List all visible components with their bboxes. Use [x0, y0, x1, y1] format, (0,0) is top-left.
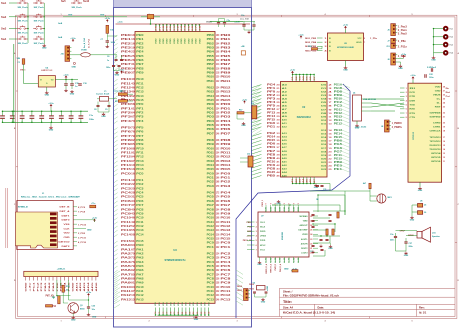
svg-text:Sw3: Sw3 [1, 27, 7, 31]
svg-text:144: 144 [216, 294, 220, 297]
SD gnd [77, 228, 86, 230]
svg-text:U3: U3 [173, 248, 177, 252]
svg-text:PB6: PB6 [334, 140, 343, 143]
svg-text:PF1: PF1 [136, 107, 144, 110]
svg-text:PC1: PC1 [136, 179, 144, 182]
LEDs HL1-HL4 [443, 26, 448, 31]
svg-text:PG3: PG3 [221, 184, 232, 188]
svg-text:GND: GND [49, 130, 54, 132]
svg-text:DVDD: DVDD [260, 231, 266, 233]
svg-text:PB14: PB14 [221, 94, 232, 98]
svg-text:PC8: PC8 [221, 276, 232, 280]
C30 gnd [87, 313, 90, 316]
C30 cap [87, 307, 90, 308]
svg-text:PD10: PD10 [207, 147, 215, 150]
svg-text:GND: GND [284, 269, 289, 271]
SDRAM U2 body [281, 82, 328, 178]
svg-text:PE9: PE9 [136, 71, 144, 74]
svg-text:PE5: PE5 [121, 54, 132, 58]
svg-text:GND: GND [314, 187, 319, 189]
svg-text:SUSPEND: SUSPEND [430, 117, 442, 119]
svg-text:PG10: PG10 [207, 217, 215, 220]
resistor R11 [62, 285, 64, 292]
svg-text:PB4: PB4 [221, 50, 232, 54]
svg-text:+3.3v: +3.3v [410, 75, 416, 77]
svg-text:8_PC9: 8_PC9 [78, 207, 86, 209]
svg-text:PC15: PC15 [121, 239, 132, 243]
svg-text:PD12: PD12 [221, 155, 232, 159]
svg-text:DAT3/CD: DAT3/CD [59, 240, 71, 243]
svg-text:PF6: PF6 [136, 131, 144, 134]
svg-text:GND: GND [26, 282, 28, 292]
svg-text:VIN: VIN [17, 58, 21, 60]
svg-text:PD9: PD9 [207, 143, 215, 146]
VIN fuse F1 [22, 59, 25, 65]
svg-text:+3.3v: +3.3v [48, 103, 54, 105]
svg-text:PB8: PB8 [207, 67, 215, 70]
resistor R20 on rail [147, 14, 154, 18]
svg-text:CHR0: CHR0 [433, 123, 442, 125]
svg-text:PE8: PE8 [136, 67, 144, 70]
svg-text:PA7: PA7 [121, 272, 132, 276]
svg-text:122: 122 [216, 246, 220, 249]
svg-text:VDD: VDD [181, 38, 183, 44]
svg-text:PB4_R_A: PB4_R_A [279, 263, 282, 272]
oval resistor VUSB [81, 53, 91, 57]
svg-text:9: 9 [270, 203, 272, 204]
svg-text:VSS: VSS [64, 224, 71, 226]
svg-text:PE6: PE6 [136, 59, 144, 62]
codec top gnd [272, 204, 278, 206]
svg-text:PF5: PF5 [136, 127, 144, 130]
svg-text:PG15: PG15 [221, 236, 232, 240]
svg-text:PF13: PF13 [136, 160, 144, 163]
svg-text:1_P5x: 1_P5x [370, 38, 378, 40]
crystal gnd [97, 107, 99, 112]
svg-text:PF6: PF6 [121, 130, 132, 134]
LED common wire [433, 29, 435, 56]
svg-text:2_P11x: 2_P11x [398, 45, 408, 48]
svg-text:PB13: PB13 [221, 90, 232, 94]
crystal Y1 [100, 97, 109, 102]
svg-text:VDD: VDD [159, 38, 161, 44]
svg-text:PA12: PA12 [136, 294, 144, 297]
svg-text:DAT1: DAT1 [62, 214, 71, 217]
svg-text:GND: GND [276, 203, 281, 205]
svg-text:PF0: PF0 [121, 102, 132, 106]
svg-text:PD8: PD8 [221, 138, 232, 142]
svg-text:VDDA: VDDA [206, 20, 212, 23]
svg-text:PF11: PF11 [121, 151, 132, 155]
svg-text:PE0: PE0 [334, 165, 343, 168]
svg-text:ES8388: ES8388 [282, 231, 284, 240]
svg-text:PC1: PC1 [221, 245, 232, 249]
svg-text:GND: GND [70, 93, 75, 95]
svg-text:+3.3v: +3.3v [70, 38, 76, 40]
header wires down [56, 280, 58, 296]
svg-text:STM32F4Z6ZGTx: STM32F4Z6ZGTx [164, 258, 186, 262]
SD +3.3v [94, 219, 96, 222]
title block [280, 288, 456, 316]
svg-text:PG12: PG12 [221, 224, 232, 228]
J6 +3.3v [403, 55, 405, 58]
svg-text:4_PC10: 4_PC10 [78, 241, 87, 244]
svg-text:PB0: PB0 [221, 33, 232, 37]
svg-text:PF5: PF5 [121, 126, 132, 130]
svg-text:IS42S16400J: IS42S16400J [297, 116, 312, 119]
svg-text:PA2: PA2 [121, 251, 132, 255]
svg-text:PG4: PG4 [207, 192, 215, 195]
svg-text:PF7: PF7 [121, 134, 132, 138]
svg-text:PC10: PC10 [207, 286, 215, 289]
flash R19 pullup [312, 48, 318, 50]
bus net (right section) [236, 84, 350, 318]
svg-text:+2B: +2B [241, 46, 245, 48]
svg-text:PD1: PD1 [207, 107, 215, 110]
svg-text:PE4: PE4 [136, 51, 144, 54]
svg-text:PC11: PC11 [207, 290, 215, 293]
svg-text:RXLED/GPIO1: RXLED/GPIO1 [430, 145, 442, 147]
svg-text:PB13: PB13 [207, 91, 215, 94]
group outline (MCU section) [114, 0, 252, 327]
svg-text:PC0: PC0 [221, 241, 232, 245]
svg-text:J12: J12 [247, 154, 250, 156]
svg-text:GND: GND [42, 48, 47, 50]
svg-text:PC7: PC7 [221, 272, 232, 276]
svg-text:PD4: PD4 [221, 119, 232, 123]
svg-text:PE6: PE6 [121, 58, 132, 62]
svg-text:PE2: PE2 [121, 41, 132, 45]
svg-text:PC9: PC9 [221, 281, 232, 285]
svg-text:PC9: PC9 [207, 282, 215, 285]
svg-text:PE10: PE10 [121, 77, 132, 81]
svg-text:156: 156 [216, 156, 220, 159]
svg-text:PD14: PD14 [207, 164, 215, 167]
svg-text:C8: C8 [94, 109, 96, 111]
svg-text:+3.3v: +3.3v [234, 22, 240, 24]
C15 cap [64, 84, 68, 85]
codec U7 bottom pins [265, 257, 267, 263]
svg-text:J11: J11 [251, 103, 254, 105]
svg-text:GND: GND [343, 70, 348, 72]
svg-text:2_PWR5v: 2_PWR5v [392, 126, 403, 129]
svg-text:PE13: PE13 [136, 91, 144, 94]
connector J12 [248, 156, 253, 167]
svg-text:138: 138 [216, 116, 220, 119]
svg-text:102: 102 [216, 38, 220, 41]
svg-text:PC8: PC8 [136, 208, 144, 211]
svg-text:9: 9 [298, 203, 300, 204]
svg-text:PWT_AD: PWT_AD [46, 295, 54, 298]
svg-text:100n: 100n [89, 119, 95, 121]
svg-text:112: 112 [216, 225, 220, 228]
svg-text:PC9: PC9 [121, 211, 132, 215]
svg-text:VDD: VDD [156, 38, 158, 44]
svg-text:VDD: VDD [64, 233, 71, 235]
flash GND below [345, 61, 347, 67]
svg-text:PF4: PF4 [136, 120, 144, 123]
svg-text:GND: GND [328, 248, 333, 250]
svg-text:PE11: PE11 [121, 81, 132, 85]
svg-text:158: 158 [216, 160, 220, 163]
codec bottom gnd [259, 257, 261, 261]
svg-text:PE14: PE14 [334, 133, 343, 136]
svg-text:PE0: PE0 [136, 34, 144, 37]
svg-text:GnB: GnB [58, 23, 63, 25]
svg-text:RST: RST [435, 106, 442, 108]
svg-text:PE0: PE0 [121, 33, 132, 37]
svg-text:PB3: PB3 [207, 46, 215, 49]
svg-text:VDD: VDD [174, 38, 176, 44]
svg-text:SUSPENDB: SUSPENDB [430, 113, 441, 115]
svg-text:PD12: PD12 [334, 112, 343, 115]
svg-text:PG1A: PG1A [334, 83, 343, 86]
svg-text:PC11: PC11 [121, 220, 132, 224]
connector J5 [391, 24, 396, 36]
svg-text:PF14: PF14 [121, 163, 132, 167]
svg-text:114: 114 [216, 229, 220, 232]
svg-text:PC6: PC6 [221, 268, 232, 272]
svg-text:PA13: PA13 [136, 298, 144, 301]
codec U7 body [258, 212, 309, 257]
svg-text:PE7: PE7 [121, 62, 132, 66]
svg-text:PC7: PC7 [136, 204, 144, 207]
+3.3V rail wire [116, 23, 251, 25]
svg-text:PB2: PB2 [207, 42, 215, 45]
svg-text:PG6: PG6 [334, 147, 343, 150]
svg-text:PE15: PE15 [136, 99, 144, 102]
svg-text:AD5: AD5 [91, 281, 94, 292]
VCAP caps C6 C7 [114, 59, 117, 60]
bus entries to header section [114, 271, 121, 275]
svg-text:+3.3v: +3.3v [401, 54, 407, 56]
svg-text:GND: GND [92, 317, 97, 319]
svg-text:PC4: PC4 [221, 260, 232, 264]
svg-text:3_Pac5: 3_Pac5 [398, 33, 408, 36]
svg-text:120: 120 [216, 76, 220, 79]
svg-text:140: 140 [216, 286, 220, 289]
USB shield gnd [356, 121, 358, 124]
mic bias res [369, 183, 371, 189]
svg-text:PA11: PA11 [121, 289, 132, 293]
svg-text:132: 132 [216, 269, 220, 272]
svg-text:Rev:: Rev: [419, 305, 425, 309]
svg-text:DTR: DTR [410, 96, 416, 98]
connector J14 [244, 289, 249, 301]
svg-text:PC2: PC2 [121, 182, 132, 186]
svg-text:PD5: PD5 [207, 124, 215, 127]
svg-text:PG1: PG1 [221, 176, 232, 180]
svg-text:LPSD0: LPSD0 [260, 236, 266, 238]
svg-text:AT25SF081-SSHD: AT25SF081-SSHD [337, 46, 354, 49]
svg-text:SW_Push: SW_Push [71, 7, 82, 9]
svg-text:+3.3v: +3.3v [290, 70, 296, 72]
svg-text:PC5: PC5 [221, 264, 232, 268]
C32 wires [243, 21, 245, 25]
J10 pad [73, 62, 75, 64]
svg-text:136: 136 [216, 277, 220, 280]
svg-text:PA6: PA6 [136, 269, 144, 272]
svg-text:PF10: PF10 [136, 147, 144, 150]
svg-text:PB12: PB12 [207, 86, 215, 89]
svg-text:C9: C9 [105, 109, 107, 111]
svg-text:AD3: AD3 [83, 281, 86, 292]
svg-text:PG1B: PG1B [334, 87, 343, 90]
svg-text:PB10: PB10 [221, 75, 232, 79]
svg-text:PG11: PG11 [207, 221, 215, 224]
svg-text:CHR1: CHR1 [433, 127, 442, 129]
microphone MK1 [377, 194, 386, 203]
svg-text:PF15: PF15 [121, 167, 132, 171]
svg-text:PG2: PG2 [207, 181, 215, 184]
svg-text:PF10: PF10 [121, 146, 132, 150]
NRST resistor R2 [106, 25, 109, 33]
svg-text:GND: GND [261, 301, 266, 303]
svg-text:USB-MICROB: USB-MICROB [363, 99, 377, 101]
svg-text:Conn_01x02: Conn_01x02 [355, 127, 366, 129]
svg-text:PWR_R_A: PWR_R_A [270, 263, 273, 272]
Q1 wires [62, 292, 64, 295]
svg-text:PWR_R: PWR_R [275, 263, 277, 270]
svg-text:AOUTR: AOUTR [301, 242, 308, 245]
svg-text:1_PWR3V: 1_PWR3V [392, 122, 402, 125]
svg-text:PB0: PB0 [207, 34, 215, 37]
svg-text:122: 122 [216, 80, 220, 83]
svg-text:PC7: PC7 [121, 203, 132, 207]
group outline top band [114, 0, 252, 8]
svg-text:PC0: PC0 [207, 242, 215, 245]
svg-text:GND: GND [71, 319, 76, 321]
svg-text:PC3: PC3 [121, 186, 132, 190]
svg-text:PG0: PG0 [207, 172, 215, 175]
svg-text:PG8: PG8 [221, 207, 232, 211]
U1 +3.3v above [412, 77, 414, 80]
svg-text:104: 104 [216, 208, 220, 211]
svg-text:150: 150 [216, 143, 220, 146]
U1 gnd below [419, 182, 421, 186]
svg-text:PF11: PF11 [334, 154, 343, 157]
svg-text:9: 9 [293, 203, 295, 204]
svg-text:PC5: PC5 [121, 195, 132, 199]
svg-text:PG1: PG1 [267, 126, 276, 129]
svg-text:VDD: VDD [196, 38, 198, 44]
svg-text:100n: 100n [429, 77, 434, 79]
svg-text:PB9: PB9 [207, 71, 215, 74]
svg-text:162: 162 [216, 168, 220, 171]
svg-text:MICBIAS: MICBIAS [300, 215, 309, 218]
svg-text:PF2: PF2 [136, 112, 144, 115]
svg-text:PC1: PC1 [207, 246, 215, 249]
svg-text:1_Pac3: 1_Pac3 [398, 25, 408, 28]
svg-text:PD0: PD0 [207, 103, 215, 106]
svg-text:PG7: PG7 [334, 150, 343, 153]
svg-text:PB5: PB5 [207, 55, 215, 58]
svg-text:CLLX: CLLX [260, 222, 266, 224]
svg-text:140: 140 [216, 120, 220, 123]
switches SW1-SW9 grid [17, 2, 20, 4]
svg-text:VDD: VDD [192, 38, 194, 44]
svg-text:146: 146 [216, 298, 220, 301]
svg-text:Date:: Date: [318, 305, 325, 309]
svg-text:PD3: PD3 [207, 116, 215, 119]
headphone jack J6 [418, 204, 423, 208]
audio gnd2 [329, 245, 332, 248]
svg-text:2_Pacx: 2_Pacx [398, 29, 408, 32]
svg-text:GND: GND [115, 74, 120, 76]
svg-text:102: 102 [216, 204, 220, 207]
svg-text:124: 124 [216, 252, 220, 255]
svg-text:4k7: 4k7 [363, 182, 366, 185]
svg-text:PE4: PE4 [121, 50, 132, 54]
svg-text:PA10: PA10 [136, 286, 144, 289]
svg-text:VCC: VCC [358, 38, 363, 40]
svg-text:VDD: VDD [199, 38, 201, 44]
svg-text:PC12: PC12 [221, 293, 232, 297]
svg-text:Crystal_Small: Crystal_Small [96, 93, 110, 96]
svg-text:Title:: Title: [283, 300, 292, 304]
svg-text:Sw13: Sw13 [83, 0, 90, 3]
svg-text:C6: C6 [107, 56, 109, 58]
transistor Q1 [68, 303, 79, 314]
svg-text:106: 106 [216, 212, 220, 215]
svg-text:File: GD32F407VE-SDRAM+-kicad_: File: GD32F407VE-SDRAM+-kicad_V2.sch [283, 294, 340, 297]
svg-text:PG14: PG14 [221, 232, 232, 236]
jack gnd [411, 216, 414, 219]
audio gnd1 [320, 245, 323, 248]
svg-text:PA6: PA6 [121, 268, 132, 272]
MCU U3 top power pins [155, 25, 157, 32]
svg-text:Sw4: Sw4 [1, 37, 7, 41]
svg-text:PC3: PC3 [221, 256, 232, 260]
svg-text:PB5: PB5 [267, 174, 276, 177]
svg-text:PD2: PD2 [221, 111, 232, 115]
svg-text:PG8: PG8 [207, 208, 215, 211]
flash U5 body [328, 33, 364, 61]
svg-text:R3: R3 [115, 101, 117, 103]
svg-text:PA11: PA11 [136, 290, 144, 293]
svg-text:AD6: AD6 [95, 281, 98, 292]
svg-text:GPIO5: GPIO5 [431, 157, 442, 159]
svg-text:PG5: PG5 [221, 195, 232, 199]
svg-text:PD13: PD13 [207, 160, 215, 163]
svg-text:DACVREF: DACVREF [298, 229, 308, 232]
svg-text:CTS: CTS [410, 117, 416, 119]
svg-text:PG4: PG4 [221, 191, 232, 195]
svg-text:PG3: PG3 [207, 185, 215, 188]
+3.3v Q1 [88, 294, 90, 297]
svg-text:Sw1: Sw1 [1, 1, 7, 5]
switch column wires [27, 3, 29, 39]
svg-text:PD12: PD12 [207, 156, 215, 159]
svg-text:PD6: PD6 [221, 127, 232, 131]
svg-text:PG9: PG9 [221, 211, 232, 215]
svg-text:SW_Push: SW_Push [34, 32, 45, 34]
svg-text:Sheet: /: Sheet: / [283, 289, 293, 293]
svg-text:VDD: VDD [177, 38, 179, 44]
svg-text:TXD: TXD [410, 104, 416, 106]
NRST gnd [106, 42, 108, 45]
svg-text:134: 134 [216, 273, 220, 276]
svg-text:PC2: PC2 [334, 101, 343, 104]
J10 +3.3v [72, 39, 74, 42]
svg-text:104: 104 [216, 42, 220, 45]
USB connector J4 body [353, 95, 362, 121]
svg-text:Comp_DAC1: Comp_DAC1 [113, 90, 125, 93]
svg-text:PC7: PC7 [207, 273, 215, 276]
svg-text:9: 9 [266, 203, 268, 204]
svg-text:PG15: PG15 [334, 157, 343, 160]
svg-text:PE14: PE14 [136, 95, 144, 98]
